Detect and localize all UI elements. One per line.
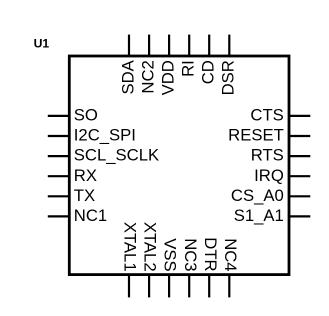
svg-text:DTR: DTR — [201, 237, 220, 271]
svg-text:TX: TX — [74, 186, 95, 205]
wire pin NC2 — [148, 35, 150, 56]
wire pin CD — [208, 35, 210, 56]
svg-text:NC2: NC2 — [139, 60, 158, 93]
wire pin NC3 — [188, 275, 190, 298]
wire pin SCL_SCLK — [48, 155, 70, 157]
wire pin CTS — [289, 115, 310, 117]
svg-text:SO: SO — [74, 106, 98, 125]
IC U1 body rectangle — [69, 56, 289, 275]
wire pin VSS — [168, 275, 170, 298]
svg-text:VSS: VSS — [161, 238, 180, 271]
wire pin RTS — [289, 155, 310, 157]
svg-text:CD: CD — [199, 60, 218, 84]
svg-text:VDD: VDD — [159, 60, 178, 95]
svg-text:RI: RI — [179, 60, 198, 77]
wire pin I2C_SPI — [48, 135, 70, 137]
wire pin VDD — [168, 35, 170, 56]
wire pin NC4 — [228, 275, 230, 298]
wire pin S1_A1 — [289, 215, 310, 217]
wire pin RESET — [289, 135, 310, 137]
svg-text:XTAL2: XTAL2 — [141, 222, 160, 272]
svg-text:I2C_SPI: I2C_SPI — [74, 126, 136, 145]
wire pin RI — [188, 35, 190, 56]
svg-text:NC3: NC3 — [181, 238, 200, 271]
svg-text:RX: RX — [74, 166, 97, 185]
svg-text:XTAL1: XTAL1 — [121, 222, 140, 272]
wire pin DSR — [228, 35, 230, 56]
wire pin IRQ — [289, 175, 310, 177]
svg-text:RESET: RESET — [228, 126, 284, 145]
svg-text:CS_A0: CS_A0 — [231, 186, 284, 205]
wire pin NC1 — [48, 215, 70, 217]
wire pin RX — [48, 175, 70, 177]
svg-text:CTS: CTS — [250, 106, 283, 125]
svg-text:NC4: NC4 — [221, 238, 240, 271]
svg-text:SDA: SDA — [118, 59, 137, 94]
wire pin SDA — [128, 35, 130, 56]
wire pin DTR — [208, 275, 210, 298]
svg-text:SCL_SCLK: SCL_SCLK — [74, 146, 159, 165]
svg-text:NC1: NC1 — [74, 206, 107, 225]
svg-text:IRQ: IRQ — [254, 166, 284, 185]
wire pin XTAL1 — [128, 275, 130, 298]
svg-text:S1_A1: S1_A1 — [234, 206, 284, 225]
wire pin XTAL2 — [148, 275, 150, 298]
svg-text:DSR: DSR — [219, 60, 238, 95]
wire pin SO — [48, 115, 70, 117]
svg-text:U1: U1 — [34, 37, 50, 51]
wire pin TX — [48, 195, 70, 197]
svg-text:RTS: RTS — [251, 146, 284, 165]
wire pin CS_A0 — [289, 195, 310, 197]
